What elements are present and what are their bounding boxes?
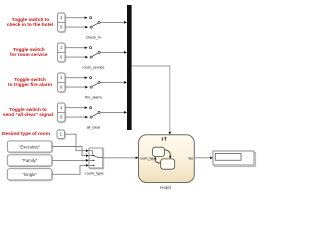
string constant "Family" <box>7 155 52 167</box>
state (lower) inside Hotel <box>161 159 175 169</box>
svg-text:to trigger fire alarm: to trigger fire alarm <box>8 82 52 88</box>
constant block "1" (all_clear row) <box>57 103 65 123</box>
wire: fire_alarm switch to mux input <box>100 81 127 84</box>
state (upper) inside Hotel <box>153 147 165 156</box>
annotation: Toggle switch to send "all clear" signal <box>3 107 53 118</box>
wire: room_service switch to mux input <box>100 51 127 54</box>
svg-text:"Executive": "Executive" <box>19 144 41 149</box>
wire: "Single" to multiport switch port 3 <box>52 164 89 174</box>
constant block "1" (fire_alarm row) <box>57 73 65 93</box>
manual switch check_in <box>86 17 101 40</box>
manual switch all_clear <box>87 107 102 130</box>
label Hotel <box>160 185 171 190</box>
wire: constant 0 to switch lower throw <box>65 86 88 89</box>
wire: all_clear switch to mux input <box>100 111 127 114</box>
svg-text:check in to the hotel: check in to the hotel <box>7 22 53 28</box>
svg-text:send "all clear" signal: send "all clear" signal <box>3 112 53 118</box>
wire: multiport switch to Hotel chart room_type input <box>103 156 139 159</box>
constant block "1" (check_in row) <box>57 13 65 33</box>
svg-text:all_clear: all_clear <box>87 125 102 129</box>
display block <box>213 151 256 167</box>
wire: constant 1 to switch upper throw <box>65 16 88 19</box>
constant block "1" (room selector) <box>57 130 65 139</box>
wire: selector constant to multiport switch control port <box>65 134 89 152</box>
mux (4-input) <box>127 5 132 130</box>
transition lower->upper <box>154 157 160 164</box>
wire: "Executive" to multiport switch port 1 <box>52 147 89 157</box>
wire: mux bus to Hotel chart trigger input <box>132 66 172 135</box>
svg-text:fire_alarm: fire_alarm <box>85 95 101 99</box>
constant block "0" (all_clear row) <box>57 112 65 119</box>
constant block "0" (fire_alarm row) <box>57 82 65 89</box>
svg-text:"Family": "Family" <box>22 158 38 163</box>
svg-text:"Single": "Single" <box>22 172 37 177</box>
svg-text:room_typ: room_typ <box>140 156 155 160</box>
wire: check_in switch to mux input <box>100 21 127 24</box>
annotation: Toggle switch for room service <box>10 47 48 58</box>
wire: constant 1 to switch upper throw <box>65 76 88 79</box>
wire: constant 0 to switch lower throw <box>65 56 88 59</box>
wire: constant 1 to switch upper throw <box>65 46 88 49</box>
annotation: Desired type of room <box>2 131 50 137</box>
svg-text:room_service: room_service <box>82 65 104 69</box>
annotation: Toggle switch to trigger fire alarm <box>8 77 52 88</box>
multiport switch room_type <box>85 148 103 176</box>
constant block "0" (room_service row) <box>57 52 65 59</box>
wire: constant 0 to switch lower throw <box>65 116 88 119</box>
svg-text:fee: fee <box>189 156 194 160</box>
svg-text:for room service: for room service <box>10 52 48 58</box>
Stateflow chart Hotel <box>139 135 195 183</box>
wire: constant 1 to switch upper throw <box>65 106 88 109</box>
annotation: Toggle switch to check in to the hotel <box>7 17 53 28</box>
string constant "Single" <box>7 169 52 181</box>
wire: "Family" to multiport switch port 2 <box>52 159 89 162</box>
svg-text:check_in: check_in <box>86 35 101 39</box>
svg-text:room_type: room_type <box>85 171 103 176</box>
constant block "0" (check_in row) <box>57 22 65 29</box>
constant block "1" (room_service row) <box>57 43 65 63</box>
manual switch room_service <box>82 47 104 70</box>
string constant "Executive" <box>7 141 52 153</box>
wire: Hotel fee output to display <box>194 156 213 159</box>
wire: constant 0 to switch lower throw <box>65 26 88 29</box>
svg-text:Desired type of room: Desired type of room <box>2 131 50 137</box>
svg-text:Hotel: Hotel <box>160 185 171 190</box>
manual switch fire_alarm <box>85 77 101 100</box>
transition upper->lower <box>165 150 172 159</box>
